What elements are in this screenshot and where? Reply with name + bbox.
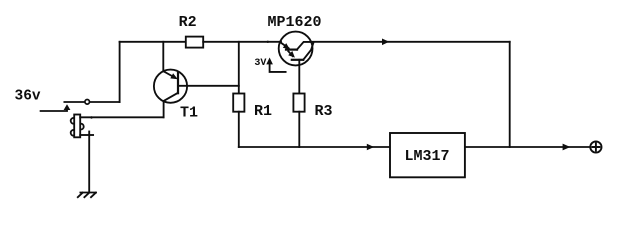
- wire switch to left riser: [90, 101, 120, 103]
- svg-text:T1: T1: [180, 105, 198, 122]
- switch S1 fixed contact: [85, 100, 90, 105]
- wire right riser down: [509, 42, 511, 147]
- resistor R1: [233, 94, 244, 112]
- arrow flow right on bottom bus: [367, 144, 374, 151]
- wire T1 base to R1 node: [178, 85, 239, 87]
- junction dot on rail: [267, 41, 269, 43]
- wire rail to R1: [238, 42, 240, 94]
- svg-text:LM317: LM317: [405, 148, 450, 165]
- output terminal plus: [590, 141, 601, 152]
- wire 36v feed stub: [41, 108, 67, 111]
- resistor R3: [293, 94, 304, 112]
- wire left riser: [119, 42, 121, 102]
- svg-text:36v: 36v: [15, 89, 41, 105]
- svg-text:R3: R3: [315, 103, 333, 120]
- wire fuse top to T1 emitter node: [80, 116, 163, 118]
- arrow flow right on output: [563, 144, 571, 151]
- wire regulator output: [465, 146, 589, 148]
- wire T1 emitter stub down: [163, 101, 165, 117]
- wire MP1620 base down to R3: [298, 60, 300, 94]
- wire top rail left: [120, 41, 186, 43]
- svg-text:MP1620: MP1620: [268, 14, 322, 31]
- junction dot on emitter wire: [90, 116, 92, 118]
- regulator U1 LM317: [390, 133, 465, 177]
- transistor MP1620: [279, 32, 314, 66]
- ground: [78, 193, 96, 198]
- wire 3V pointer leader: [270, 64, 286, 72]
- wire R1 bottom: [238, 112, 240, 147]
- svg-text:3V: 3V: [254, 58, 266, 69]
- wire top rail right: [311, 41, 510, 43]
- arrow flow right on top rail: [382, 39, 389, 46]
- wire switch blade: [64, 101, 84, 103]
- fuse F1 body: [71, 115, 84, 138]
- wire T1 collector stub to rail: [162, 42, 164, 71]
- wire fuse bottom to ground: [80, 134, 93, 136]
- resistor R2: [186, 37, 203, 48]
- arrow 3V pointer: [266, 58, 273, 65]
- switch S1 movable contact arrow: [64, 104, 71, 110]
- wire R3 bottom: [298, 112, 300, 147]
- svg-text:R1: R1: [254, 103, 272, 120]
- wire bottom bus to regulator: [239, 146, 390, 148]
- transistor T1: [154, 70, 187, 103]
- wire top rail middle: [203, 41, 281, 43]
- svg-text:R2: R2: [179, 14, 197, 31]
